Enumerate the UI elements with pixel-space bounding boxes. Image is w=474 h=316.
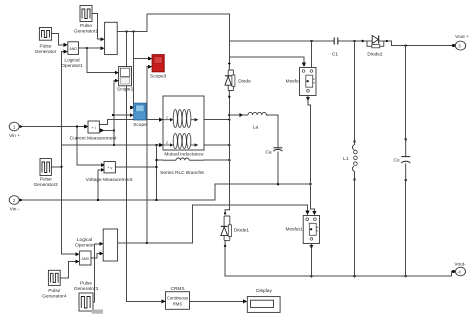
svg-text:Co: Co: [393, 158, 399, 164]
svg-text:2: 2: [166, 141, 168, 145]
wire: Voltage Measurement output to measurement bus: [115, 166, 156, 168]
wire: Co bottom to rail: [405, 180, 407, 276]
diode D1 (Diode1, vertical with snubber): [221, 210, 250, 247]
svg-text:RMS: RMS: [173, 301, 183, 306]
current measurement CM: [70, 121, 117, 141]
svg-text:La: La: [253, 125, 259, 131]
svg-text:Current Measurement: Current Measurement: [70, 135, 117, 141]
svg-text:Diode2: Diode2: [367, 51, 383, 57]
svg-text:Ca: Ca: [265, 149, 271, 155]
svg-text:Diode: Diode: [238, 78, 251, 84]
wire: branch down to Voltage Measurement in1: [77, 127, 102, 166]
svg-text:Scope3: Scope3: [150, 74, 167, 80]
wire: Logical Operator1 output to Tall block in2: [79, 47, 101, 49]
svg-text:+ v: + v: [107, 165, 112, 170]
svg-text:1: 1: [166, 116, 168, 120]
wire: Current Measurement i output down to measurement line: [99, 129, 114, 131]
capacitor Ca: [265, 148, 282, 156]
wire: Co riser: [405, 46, 407, 140]
wire: diode bottom node to La: [228, 97, 230, 210]
port P2 (Vin-): [9, 196, 22, 213]
wire: gate net down to Scope3 in1 and Scope in1: [133, 32, 135, 107]
series RLC branch L6 (Series RLC Branch6): [160, 158, 204, 176]
wire: Mutual winding1- to main vertical: [204, 119, 229, 121]
svg-text:+ i: + i: [92, 125, 96, 130]
svg-text:Mutual Inductance: Mutual Inductance: [164, 151, 204, 157]
wire: Current Measurement top output to winding1: [99, 120, 159, 125]
wire: gate rail to Mosfet: [229, 57, 304, 63]
wire: branch down to Scope2 in1: [87, 48, 116, 72]
wire: Pulse Generator4 to Logical Operator in2: [60, 262, 76, 278]
wire: Scope in2 feed from measurement riser: [113, 114, 130, 116]
wire: Tall block output gate net to top rail: [117, 14, 229, 66]
wire: L1 bottom to rail: [354, 180, 356, 277]
svg-text:Series RLC Branch6: Series RLC Branch6: [160, 170, 204, 176]
port P4 (Vout-): [454, 262, 466, 276]
svg-text:Logical: Logical: [64, 58, 79, 64]
block Display: [247, 288, 280, 312]
pulse generator PG2 (Pulse Generator2): [34, 159, 59, 189]
svg-text:Scope: Scope: [133, 122, 147, 128]
subsystem block B1 (tall block top): [105, 22, 118, 54]
wire: measurement bus vertical x=156.5: [156, 145, 158, 200]
scope SC3 (Scope3, red): [150, 55, 167, 80]
pulse generator PG4 (Pulse Generator4): [42, 270, 67, 299]
svg-text:Display: Display: [256, 288, 272, 294]
UI artifact: grey patch right of Pulse Generator3: [92, 310, 104, 314]
svg-text:C1: C1: [332, 51, 338, 57]
svg-text:Operator: Operator: [75, 243, 94, 249]
svg-text:Pulse: Pulse: [80, 23, 92, 29]
port P3 (Vout+): [455, 34, 469, 50]
wire: CRMS to Display: [190, 300, 244, 302]
wire: measurement riser x=114 (Scope2 in2 / Scope in2 feed): [114, 81, 115, 145]
wire: long measurement line y=145 to winding2: [62, 144, 160, 146]
junction PG2 net: [60, 166, 62, 168]
scope SC2 (Scope2): [117, 67, 134, 93]
wire: Pulse Generator1 down to Tall block in1: [92, 13, 101, 39]
wire: Vin+ port to Current Measurement: [20, 126, 85, 128]
svg-text:Vin -: Vin -: [10, 206, 20, 212]
subsystem block B2 (tall block bottom / mux): [103, 229, 117, 261]
wire: branch up to Voltage Measurement in2: [98, 170, 102, 200]
wire: RLC right port to main vertical: [204, 159, 229, 161]
mosfet Q2 (Mosfet1): [285, 216, 319, 250]
capacitor Co (vertical): [393, 138, 410, 181]
svg-text:Pulse: Pulse: [80, 281, 92, 287]
wire: Mosfet1 source to rail: [310, 249, 312, 276]
winding 1: [164, 119, 172, 121]
inductor L1 (vertical): [343, 140, 357, 180]
wire: L1 riser from rail A: [354, 41, 356, 142]
svg-text:L1: L1: [343, 156, 349, 162]
wire: shared vertical bus x=61.5 (Pulse Generator2 net): [62, 52, 76, 255]
svg-text:Logical: Logical: [77, 237, 92, 243]
svg-text:Pulse: Pulse: [40, 44, 52, 50]
wire: Mosfet drain riser: [310, 41, 312, 68]
diode D0 (Diode, vertical with snubber): [225, 66, 251, 98]
mutual inductance T1 (Mutual Inductance): [163, 96, 204, 157]
svg-text:Generator1: Generator1: [74, 29, 99, 35]
svg-text:Vout +: Vout +: [455, 34, 469, 40]
svg-text:AND: AND: [69, 47, 77, 51]
wire: top rail A y=41.8: [229, 40, 334, 42]
wire: Diode1 bottom to ground rail: [225, 246, 453, 276]
wire: La to Ca: [266, 115, 278, 147]
svg-text:Scope2: Scope2: [117, 87, 134, 93]
svg-text:Pulse: Pulse: [48, 288, 60, 294]
svg-text:Mosfet: Mosfet: [286, 78, 301, 84]
svg-text:AND: AND: [82, 257, 90, 261]
wire: Pulse Generator to Logical Operator1 in1: [52, 34, 65, 45]
svg-text:Operator1: Operator1: [61, 63, 83, 69]
svg-text:Vin +: Vin +: [9, 133, 20, 139]
voltage measurement VM: [86, 162, 133, 183]
svg-text:Vout-: Vout-: [454, 262, 466, 268]
wire: Mutual winding2- to main vertical: [204, 144, 229, 146]
svg-text:Generator3: Generator3: [74, 286, 99, 292]
wire: Vin- rail to mosfet source node: [20, 184, 311, 200]
svg-text:Generator2: Generator2: [34, 182, 59, 188]
wire: Pulse Generator2 output: [51, 166, 61, 168]
pulse generator PG1 (Pulse Generator1): [74, 6, 99, 35]
wire: Logical Operator out to mux in2: [91, 253, 100, 258]
svg-text:CRMS: CRMS: [170, 286, 184, 292]
wire: mux2 output to Mosfet1 gate: [118, 205, 308, 243]
scope SC1 (Scope, blue): [133, 103, 147, 128]
svg-text:Generator: Generator: [35, 49, 57, 55]
winding 2: [164, 144, 172, 146]
wire: gate net down to CRMS: [127, 32, 163, 302]
block CRMS (Continuous RMS): [166, 286, 190, 310]
svg-text:Voltage Measurement: Voltage Measurement: [86, 177, 133, 183]
wire: Series RLC Branch6 left port to bus: [157, 159, 164, 161]
svg-text:Diode1: Diode1: [234, 228, 250, 234]
wire: mux output up to Scope3 in2: [147, 67, 149, 243]
capacitor C1: [332, 38, 338, 58]
svg-text:Continuous: Continuous: [167, 295, 188, 300]
pulse generator PG3 (Pulse Generator3): [74, 281, 99, 312]
wire: Mosfet source down to Mosfet1: [308, 100, 315, 211]
junction at x=86.9 on AND1 output: [86, 47, 88, 49]
svg-text:Generator4: Generator4: [42, 294, 67, 300]
svg-text:Pulse: Pulse: [40, 177, 52, 183]
logic gate U2 (Logical Operator AND): [75, 237, 94, 265]
svg-text:Mosfet1: Mosfet1: [285, 227, 302, 233]
inductor La: [240, 112, 268, 130]
diode D2 (Diode2, horizontal with snubber): [361, 35, 388, 57]
logic gate U1 (Logical Operator1 AND): [61, 42, 83, 69]
mosfet Q1 (Mosfet): [286, 68, 316, 102]
port P1 (Vin+): [9, 122, 22, 139]
pulse generator PG (Pulse Generator): [35, 28, 57, 56]
wire: Pulse Generator3 riser to mux in1: [93, 244, 100, 302]
